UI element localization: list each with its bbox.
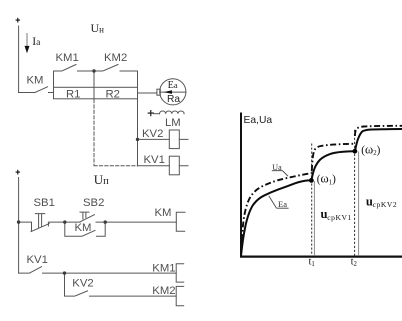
svg-text:Ua: Ua [272, 163, 282, 172]
svg-text:KM1: KM1 [56, 52, 79, 64]
svg-text:SB2: SB2 [83, 197, 104, 209]
svg-text:KM2: KM2 [152, 285, 175, 297]
svg-text:KM2: KM2 [104, 52, 127, 64]
svg-text:KM: KM [75, 222, 92, 234]
svg-text:Iа: Iа [32, 35, 41, 48]
svg-text:KV2: KV2 [142, 128, 163, 140]
svg-text:t2: t2 [351, 257, 358, 269]
svg-text:R1: R1 [66, 89, 80, 101]
svg-text:SB1: SB1 [34, 197, 55, 209]
svg-text:Ra: Ra [167, 94, 180, 105]
svg-text:Eа: Eа [168, 80, 178, 91]
svg-text:Ea,Ua: Ea,Ua [244, 115, 273, 126]
svg-text:(ω2): (ω2) [361, 142, 380, 157]
svg-text:(ω1): (ω1) [317, 172, 336, 187]
svg-text:R2: R2 [106, 89, 120, 101]
svg-text:Uн: Uн [91, 21, 105, 35]
svg-text:KV1: KV1 [144, 154, 165, 166]
svg-text:KM1: KM1 [152, 262, 175, 274]
svg-text:KV2: KV2 [72, 278, 93, 290]
svg-text:KV1: KV1 [27, 254, 48, 266]
svg-text:срKV2: срKV2 [373, 200, 398, 209]
svg-text:Uп: Uп [94, 172, 109, 187]
svg-text:срKV1: срKV1 [327, 213, 352, 222]
svg-text:t1: t1 [309, 257, 315, 269]
svg-text:Ea: Ea [278, 199, 287, 209]
svg-text:KM: KM [155, 207, 172, 219]
svg-text:LM: LM [165, 117, 181, 129]
svg-text:KM: KM [27, 75, 44, 87]
